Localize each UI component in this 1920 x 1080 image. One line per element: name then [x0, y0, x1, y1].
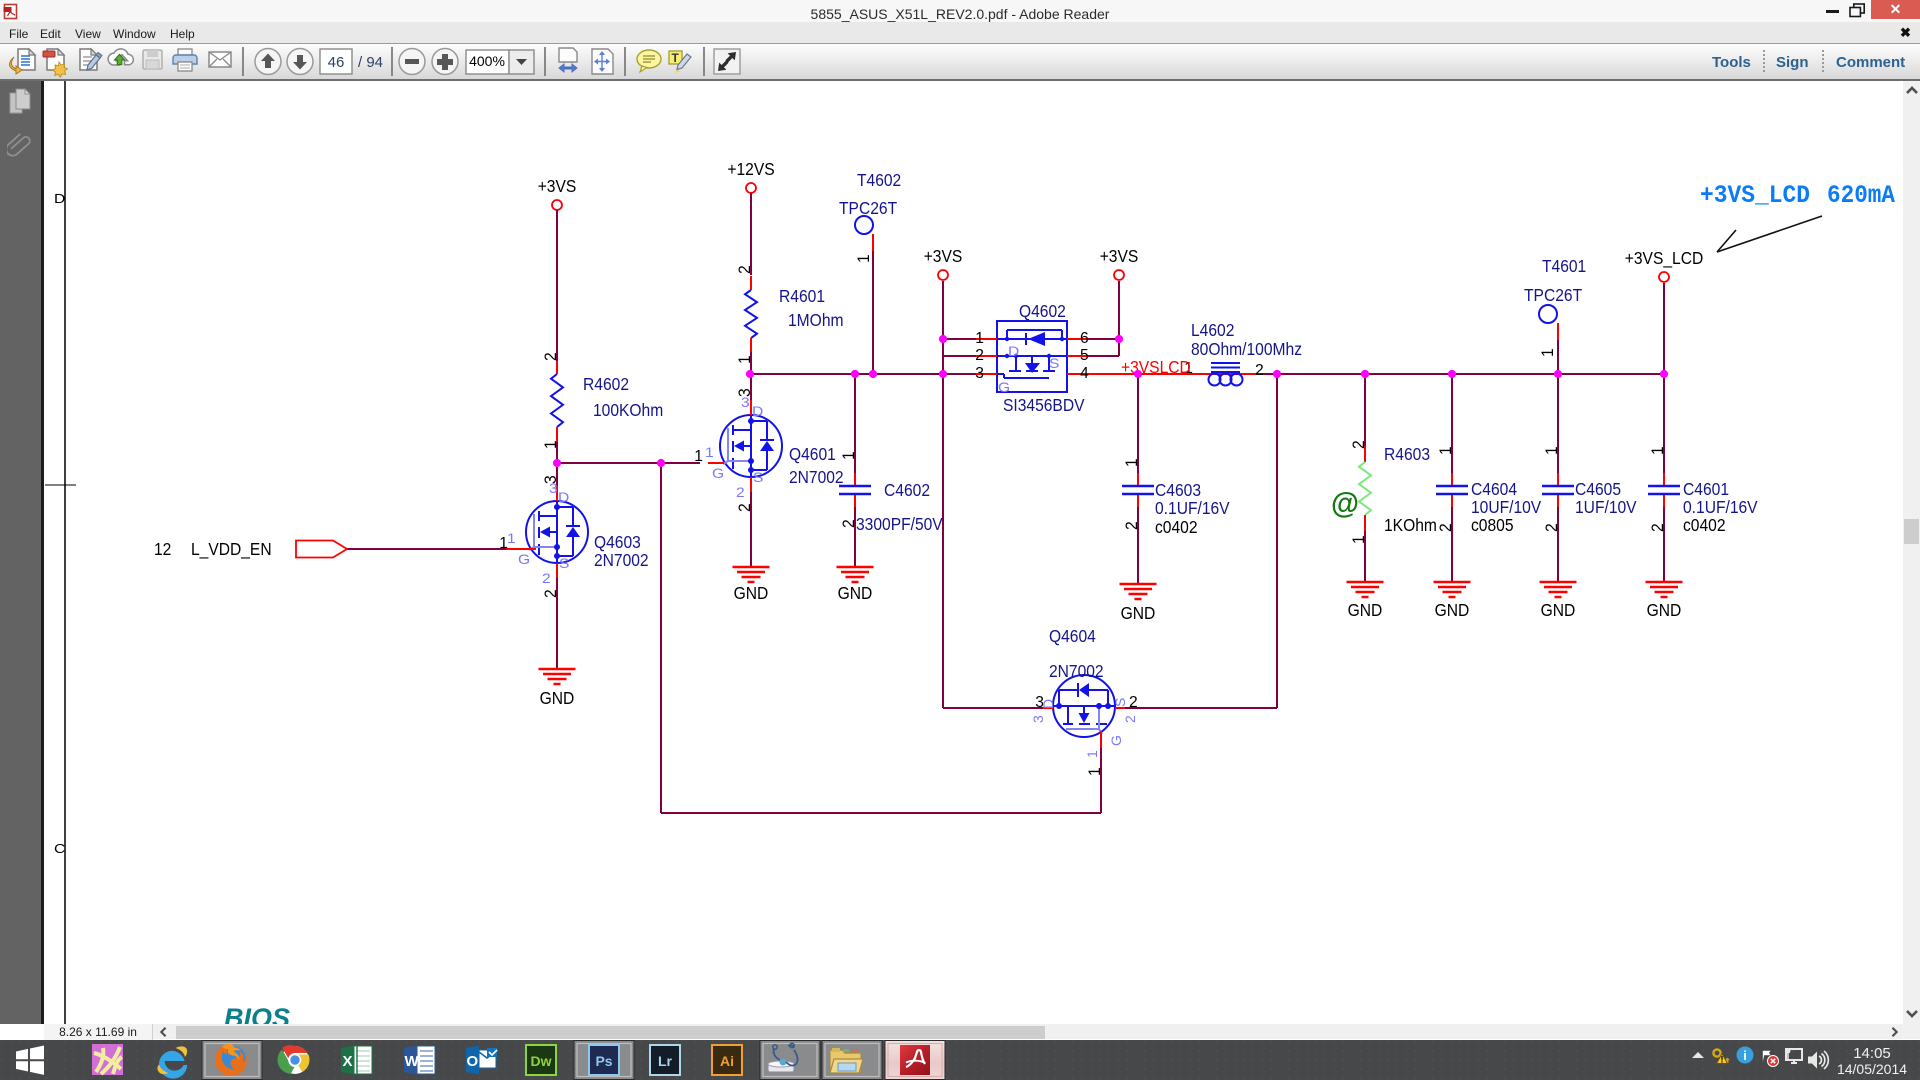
svg-text:TPC26T: TPC26T	[1524, 285, 1582, 305]
toolbar icon: fullscreen	[714, 49, 740, 74]
svg-text:G: G	[1108, 735, 1124, 746]
power +3VS	[538, 176, 577, 210]
zoom level box	[466, 50, 534, 74]
taskbar icon: chrome	[277, 1045, 309, 1074]
ground R4603	[1347, 582, 1384, 620]
toolbar icon: print	[173, 49, 197, 71]
svg-text:R4602: R4602	[583, 374, 629, 394]
svg-text:400%: 400%	[469, 53, 505, 69]
junction T4601/C4605 tap	[1554, 370, 1562, 378]
wire Q4603 drain net	[556, 463, 558, 486]
svg-text:620mA: 620mA	[1827, 181, 1895, 210]
wire +3VS to R4602	[556, 210, 558, 361]
wire +3VS_LCD drop	[1663, 283, 1665, 374]
horizontal scrollbar	[44, 1024, 1920, 1040]
toolbar icon: text highlight sign	[669, 51, 691, 73]
wire Q4604 drain wire	[943, 707, 1043, 709]
transistor Q4603 2N7002	[499, 475, 648, 598]
svg-text:S: S	[559, 555, 569, 571]
svg-text:GND: GND	[1121, 603, 1156, 623]
svg-text:G: G	[712, 465, 724, 481]
toolbar icon: sign	[80, 49, 102, 70]
svg-text:2N7002: 2N7002	[789, 467, 844, 487]
svg-text:C4604: C4604	[1471, 479, 1517, 499]
svg-text:+3VSLCD: +3VSLCD	[1121, 357, 1191, 377]
svg-text:2N7002: 2N7002	[594, 550, 649, 570]
svg-text:L_VDD_EN: L_VDD_EN	[191, 539, 272, 559]
ground C4602	[837, 567, 874, 603]
taskbar icon: adobe reader (current app)	[885, 1041, 945, 1080]
transistor Q4604 2N7002 (rotated)	[1030, 626, 1138, 776]
svg-text:S: S	[1112, 698, 1128, 707]
svg-text:14/05/2014: 14/05/2014	[1837, 1061, 1907, 1077]
svg-text:1: 1	[1437, 446, 1455, 455]
resistor R4603 (green)	[1331, 440, 1437, 544]
ground C4601	[1646, 582, 1683, 620]
svg-text:3300PF/50V: 3300PF/50V	[856, 514, 943, 534]
junction R4601/Q4601 junction	[746, 370, 754, 378]
svg-text:1: 1	[1649, 446, 1667, 455]
svg-text:2: 2	[1122, 715, 1138, 723]
wire +12VS to R4601	[750, 193, 752, 275]
inductor L4602 ferrite bead	[1184, 320, 1302, 386]
capacitor C4604	[1436, 446, 1542, 535]
clock	[1837, 1045, 1907, 1077]
svg-text:G: G	[998, 379, 1010, 395]
svg-text:2: 2	[1649, 523, 1667, 532]
wire C4602 to GND	[854, 507, 856, 567]
power +3VS	[924, 246, 963, 280]
svg-text:2: 2	[1350, 440, 1368, 449]
vertical scrollbar	[1903, 81, 1920, 1024]
svg-text:T: T	[672, 51, 680, 65]
svg-text:1: 1	[1123, 458, 1141, 467]
wire main rail right segment	[1247, 373, 1664, 375]
svg-text:1MOhm: 1MOhm	[788, 310, 844, 330]
wire C4603 to GND	[1137, 507, 1139, 584]
junction T4602 tap	[869, 370, 877, 378]
resistor R4601	[736, 265, 844, 374]
svg-text:D: D	[1040, 699, 1056, 709]
svg-text:3: 3	[1030, 715, 1046, 723]
svg-text:2: 2	[975, 347, 984, 364]
wire Q4601 gate net down-around to Q4604 gate	[661, 463, 1101, 813]
taskbar icon: media app (pink)	[92, 1044, 123, 1075]
resistor R4602	[542, 352, 663, 463]
svg-text:+3VS: +3VS	[1100, 246, 1139, 266]
svg-text:@: @	[1331, 487, 1359, 520]
taskbar icon: file explorer (active)	[822, 1041, 882, 1080]
transistor Q4601 2N7002	[694, 388, 843, 512]
svg-text:14:05: 14:05	[1853, 1045, 1891, 1062]
svg-text:C: C	[54, 841, 65, 856]
svg-text:1: 1	[705, 444, 714, 460]
svg-text:Ps: Ps	[595, 1053, 612, 1069]
ground Q4601	[733, 567, 770, 603]
junction Q4604 source net tap	[1273, 370, 1281, 378]
svg-text:1: 1	[975, 330, 984, 347]
capacitor C4605	[1542, 446, 1637, 532]
svg-text:+3VS_LCD: +3VS_LCD	[1625, 248, 1704, 268]
svg-text:2: 2	[736, 503, 754, 512]
toolbar	[0, 43, 1920, 81]
close button	[1871, 0, 1920, 19]
wire C4601 to GND	[1663, 507, 1665, 582]
wire +3VS right drop through pin6 node to pin5 corner	[1118, 281, 1120, 356]
svg-text:Lr: Lr	[658, 1053, 673, 1069]
svg-text:C4601: C4601	[1683, 479, 1729, 499]
svg-text:4: 4	[1080, 365, 1089, 382]
svg-text:1UF/10V: 1UF/10V	[1575, 497, 1637, 517]
toolbar icon: previous page	[255, 49, 281, 75]
taskbar icon: dreamweaver	[526, 1045, 556, 1075]
svg-text:C4602: C4602	[884, 480, 930, 500]
capacitor C4603	[1122, 458, 1230, 537]
power +3VS	[1100, 246, 1139, 280]
svg-text:2: 2	[1129, 694, 1138, 711]
svg-text:c0402: c0402	[1155, 517, 1198, 537]
wire +3VS vertical through rail down to Q4604 drain	[942, 281, 944, 708]
svg-text:6: 6	[1080, 330, 1089, 347]
minimize button	[1826, 10, 1839, 13]
svg-text:TPC26T: TPC26T	[839, 198, 897, 218]
svg-text:D: D	[54, 191, 65, 206]
svg-text:GND: GND	[1348, 600, 1383, 620]
svg-text:T4602: T4602	[857, 170, 901, 190]
svg-text:10UF/10V: 10UF/10V	[1471, 497, 1542, 517]
toolbar icon: comment bubble	[637, 50, 661, 72]
svg-text:BIOS: BIOS	[224, 1003, 290, 1024]
svg-text:1: 1	[1543, 446, 1561, 455]
svg-text:c0805: c0805	[1471, 515, 1514, 535]
svg-text:1KOhm: 1KOhm	[1384, 515, 1437, 535]
svg-text:Q4601: Q4601	[789, 444, 836, 464]
taskbar	[0, 1040, 1920, 1080]
toolbar icon: zoom in	[432, 49, 458, 75]
junction R4603 tap	[1361, 370, 1369, 378]
svg-text:+3VS: +3VS	[924, 246, 963, 266]
svg-text:O: O	[467, 1053, 479, 1070]
svg-text:2: 2	[1255, 362, 1264, 379]
svg-text:GND: GND	[838, 583, 873, 603]
svg-text:5: 5	[1080, 347, 1089, 364]
svg-text:Q4602: Q4602	[1019, 301, 1066, 321]
menu bar	[0, 22, 1920, 43]
wire T4602 drop	[872, 251, 874, 374]
capacitor C4601	[1648, 446, 1758, 535]
junction rail/Q4604 drain junction	[939, 370, 947, 378]
toolbar icon: open	[9, 49, 35, 74]
svg-text:2: 2	[542, 570, 551, 586]
svg-text:SI3456BDV: SI3456BDV	[1003, 395, 1085, 415]
svg-text:100KOhm: 100KOhm	[593, 400, 663, 420]
wire Q4601 source to GND	[750, 478, 752, 567]
toolbar icon: zoom out	[399, 49, 425, 75]
toolbar icon: save (disabled)	[143, 50, 162, 69]
svg-text:3: 3	[741, 394, 750, 410]
test point T4601 TPC26T	[1524, 256, 1586, 357]
wire rail to C4604	[1451, 374, 1453, 473]
wire Q4604 source wire	[1125, 707, 1277, 709]
svg-text:Dw: Dw	[531, 1053, 552, 1069]
svg-text:!: !	[1721, 1055, 1724, 1065]
wire +3VSLCD down right of Q4604	[1276, 374, 1278, 708]
junction C4603 tap	[1134, 370, 1142, 378]
junction R4602/Q4603/wire junction	[553, 459, 561, 467]
wire R4602 junction to Q4601 gate	[557, 462, 700, 464]
svg-text:1: 1	[840, 451, 858, 460]
svg-text:12: 12	[154, 539, 171, 559]
svg-text:R4603: R4603	[1384, 444, 1430, 464]
toolbar icon: fit page	[592, 49, 613, 74]
toolbar icon: create pdf	[43, 49, 67, 77]
svg-text:+3VS_LCD: +3VS_LCD	[1700, 181, 1810, 210]
svg-text:G: G	[518, 551, 530, 567]
taskbar icon: firefox (active)	[202, 1041, 262, 1080]
junction C4604 tap	[1448, 370, 1456, 378]
ground Q4603	[539, 669, 576, 708]
system tray	[1692, 1047, 1828, 1070]
wire Q4602 pin2 net	[943, 355, 976, 357]
svg-text:C4603: C4603	[1155, 480, 1201, 500]
wire rail to C4605	[1557, 374, 1559, 473]
svg-text:S: S	[1049, 355, 1059, 371]
wire rail to C4602	[854, 374, 856, 473]
svg-text:R4601: R4601	[779, 286, 825, 306]
taskbar start button	[16, 1046, 44, 1075]
wire main rail left segment y=374	[750, 373, 976, 375]
svg-text:S: S	[753, 469, 763, 485]
svg-text:3: 3	[975, 365, 984, 382]
svg-text:1: 1	[1350, 535, 1368, 544]
svg-text:+3VS: +3VS	[538, 176, 577, 196]
svg-text:D: D	[558, 489, 569, 505]
svg-text:W: W	[405, 1053, 420, 1070]
wire Q4601 drain net	[750, 374, 752, 400]
svg-text:Ai: Ai	[720, 1053, 734, 1069]
svg-text:Q4603: Q4603	[594, 532, 641, 552]
power +3VS_LCD	[1625, 248, 1704, 282]
svg-text:2: 2	[736, 265, 754, 274]
svg-text:0.1UF/16V: 0.1UF/16V	[1155, 498, 1230, 518]
wire C4605 to GND	[1557, 507, 1559, 582]
svg-text:i: i	[1743, 1048, 1747, 1063]
svg-text:0.1UF/16V: 0.1UF/16V	[1683, 497, 1758, 517]
svg-text:1: 1	[1539, 348, 1557, 357]
junction +3VS pin1 junction	[939, 335, 947, 343]
ground C4605	[1540, 582, 1577, 620]
annotation arrow	[1717, 216, 1822, 252]
svg-text:3: 3	[549, 480, 558, 496]
svg-text:GND: GND	[1541, 600, 1576, 620]
taskbar icon: illustrator	[712, 1045, 742, 1075]
svg-text:1: 1	[1086, 767, 1104, 776]
wire rail to R4603	[1364, 374, 1366, 446]
test point T4602 TPC26T	[839, 170, 901, 263]
svg-text:2: 2	[1437, 523, 1455, 532]
junction +3VS pin6 junction	[1115, 335, 1123, 343]
svg-text:GND: GND	[540, 688, 575, 708]
svg-text:2: 2	[736, 484, 745, 500]
svg-text:2: 2	[542, 589, 560, 598]
svg-text:c0402: c0402	[1683, 515, 1726, 535]
capacitor C4602	[839, 451, 943, 534]
wire R4603 to GND	[1364, 531, 1366, 582]
svg-text:2: 2	[1123, 521, 1141, 530]
junction +3VS_LCD/C4601 tap	[1660, 370, 1668, 378]
svg-text:L4602: L4602	[1191, 320, 1234, 340]
svg-text:46: 46	[328, 54, 345, 71]
svg-text:1: 1	[542, 440, 560, 449]
junction C4602 tap	[851, 370, 859, 378]
application icon	[3, 3, 20, 20]
schematic sheet frame left border	[45, 81, 76, 1024]
toolbar icon: email	[209, 52, 231, 67]
transistor Q4602 SI3456BDV	[975, 301, 1088, 415]
toolbar icon: next page	[287, 49, 313, 75]
taskbar icon: lightroom	[650, 1045, 680, 1075]
svg-text:1: 1	[507, 530, 516, 546]
svg-text:GND: GND	[1647, 600, 1682, 620]
wire +3VS to Q4602 pin1	[943, 338, 976, 340]
svg-text:2N7002: 2N7002	[1049, 661, 1104, 681]
wire Q4602 pin5 to +3VS drop corner	[1088, 355, 1119, 357]
svg-text:1: 1	[855, 254, 873, 263]
taskbar icon: internet explorer	[157, 1046, 187, 1078]
svg-text:T4601: T4601	[1542, 256, 1586, 276]
taskbar icon: excel	[341, 1046, 372, 1075]
wire rail to C4603	[1137, 374, 1139, 473]
svg-text:2: 2	[1543, 523, 1561, 532]
svg-text:1: 1	[694, 448, 703, 465]
svg-text:80Ohm/100Mhz: 80Ohm/100Mhz	[1191, 339, 1302, 359]
svg-text:/ 94: / 94	[358, 54, 383, 71]
wire C4604 to GND	[1451, 507, 1453, 582]
wire rail to C4601	[1663, 374, 1665, 473]
power +12VS	[727, 159, 774, 193]
svg-text:1: 1	[1084, 750, 1100, 758]
ground C4603	[1120, 584, 1157, 623]
wire +3VSLCD red segment	[1088, 373, 1191, 375]
toolbar icon: cloud upload	[108, 49, 133, 65]
svg-text:X: X	[343, 1053, 353, 1070]
junction gate net junction	[657, 459, 665, 467]
svg-text:C4605: C4605	[1575, 479, 1621, 499]
ground C4604	[1434, 582, 1471, 620]
document panel	[0, 81, 41, 1024]
input port L_VDD_EN pin 12	[154, 539, 536, 559]
wire L_VDD_EN to Q4603 gate	[347, 548, 506, 550]
svg-text:1: 1	[736, 355, 754, 364]
taskbar icon: photoshop (active)	[574, 1041, 634, 1080]
sidebar page thumbnails icon	[8, 88, 34, 116]
svg-text:D: D	[752, 403, 763, 419]
restore button	[1849, 3, 1866, 18]
toolbar icon: fit width	[559, 48, 577, 72]
taskbar icon: word	[404, 1046, 435, 1075]
wire T4601 drop	[1557, 340, 1559, 374]
svg-text:D: D	[1008, 343, 1019, 359]
sidebar paperclip icon	[7, 128, 33, 158]
taskbar icon: outlook	[466, 1046, 497, 1075]
svg-text:GND: GND	[1435, 600, 1470, 620]
svg-text:GND: GND	[734, 583, 769, 603]
wire Q4603 source to GND	[556, 564, 558, 669]
taskbar icon: diagnostics tool (active)	[760, 1041, 820, 1080]
page number box	[320, 49, 383, 74]
svg-text:2: 2	[542, 352, 560, 361]
svg-text:+12VS: +12VS	[727, 159, 774, 179]
svg-text:Q4604: Q4604	[1049, 626, 1096, 646]
wire pin6 to +3VS junction	[1088, 338, 1122, 340]
window title bar	[0, 0, 1920, 22]
